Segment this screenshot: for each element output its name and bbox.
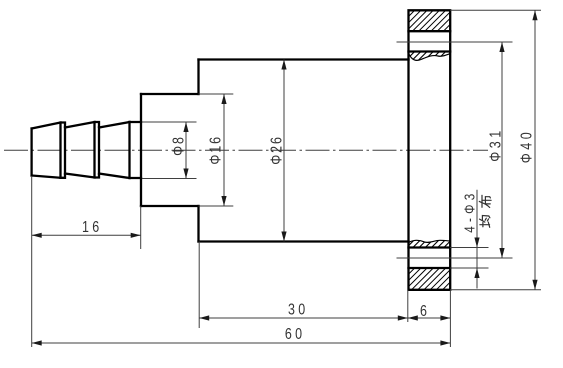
svg-text:Φ40: Φ40 <box>518 129 536 164</box>
extension line left (barb tip) <box>31 176 33 347</box>
hatch: upper broken-out section below bolt hole <box>398 52 458 63</box>
dimension line 16 <box>32 234 141 236</box>
extension line barb end <box>140 206 142 249</box>
svg-text:4-Φ3: 4-Φ3 <box>461 189 478 232</box>
centerline (dash-dot axis) <box>4 149 488 151</box>
break line lower <box>409 240 451 242</box>
4-phi3 dimension line with leader <box>476 190 478 289</box>
barb collar 1 <box>61 123 66 178</box>
bolt hole edges upper <box>409 31 451 51</box>
extension line phi26 step <box>198 242 200 329</box>
dimension line 30 and 6 <box>199 317 450 319</box>
step faces phi16 to phi26 <box>197 60 199 242</box>
barb end cylinder <box>130 122 142 178</box>
shoulder face phi16 section <box>140 94 142 206</box>
bolt hole extension lines <box>450 248 488 269</box>
barb cone 3 <box>99 122 130 178</box>
flange outline <box>409 10 451 290</box>
barb tip face <box>30 129 32 176</box>
svg-text:Φ8: Φ8 <box>170 135 188 156</box>
phi26 dimension line <box>283 60 285 242</box>
svg-text:Φ16: Φ16 <box>207 135 225 165</box>
hatch: flange lower rim section <box>387 268 471 290</box>
barb cone 1 <box>32 123 61 178</box>
svg-text:Φ26: Φ26 <box>268 135 286 165</box>
phi16 section outline <box>141 94 199 206</box>
extension line flange right face <box>449 290 451 347</box>
svg-text:30: 30 <box>288 301 308 319</box>
bolt hole edges lower <box>409 248 451 269</box>
phi31 extension lines <box>397 42 513 258</box>
svg-text:16: 16 <box>82 219 102 237</box>
phi8 dimension line <box>185 122 187 179</box>
break line upper <box>409 53 451 60</box>
svg-text:Φ31: Φ31 <box>487 127 505 162</box>
phi16 extension lines <box>199 94 234 206</box>
note text jun-bu (evenly spaced), hand-drawn glyphs <box>479 195 491 227</box>
phi16 dimension line <box>223 94 225 206</box>
barb collar 2 <box>95 122 100 178</box>
extension line flange left face <box>407 290 409 322</box>
phi8 extension lines <box>142 122 197 179</box>
barb ridge end face <box>128 122 130 178</box>
phi40 extension lines <box>450 10 541 290</box>
barb cone 2 <box>65 122 95 178</box>
hatch: flange upper rim section <box>388 10 471 31</box>
phi26 body outline <box>199 60 409 242</box>
dimension line 60 <box>32 342 451 344</box>
phi31 dimension line <box>501 42 503 258</box>
svg-text:6: 6 <box>420 303 427 321</box>
svg-text:60: 60 <box>285 326 305 344</box>
hatch: lower broken-out section above bolt hole <box>401 240 459 248</box>
phi40 dimension line <box>534 10 536 290</box>
